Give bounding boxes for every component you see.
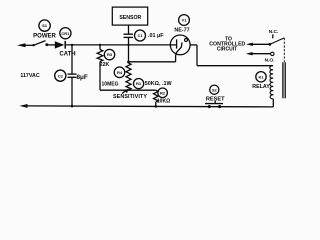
svg-text:SENSOR: SENSOR (119, 15, 141, 21)
svg-text:10KΩ: 10KΩ (157, 98, 170, 104)
svg-text:NE-77: NE-77 (174, 27, 189, 33)
svg-text:R2: R2 (160, 90, 166, 95)
svg-text:RESET: RESET (206, 96, 225, 102)
svg-text:22K: 22K (100, 62, 110, 68)
svg-text:.01 μF: .01 μF (148, 33, 164, 39)
svg-text:R1: R1 (136, 81, 142, 86)
svg-text:C1: C1 (137, 33, 143, 38)
svg-text:R4: R4 (117, 70, 123, 75)
svg-text:8μF: 8μF (77, 74, 88, 81)
svg-text:R3: R3 (107, 52, 113, 57)
svg-text:CIRCUIT: CIRCUIT (217, 47, 237, 53)
svg-text:S2: S2 (212, 87, 218, 92)
svg-text:SENSITIVITY: SENSITIVITY (113, 94, 147, 100)
svg-text:V1: V1 (182, 18, 188, 23)
svg-text:N.O.: N.O. (265, 58, 275, 64)
svg-text:50KΩ, .1W: 50KΩ, .1W (145, 81, 173, 87)
svg-text:RELAY: RELAY (252, 84, 270, 90)
svg-text:117VAC: 117VAC (20, 73, 40, 79)
svg-text:K1: K1 (258, 74, 264, 79)
svg-text:S1: S1 (42, 23, 48, 28)
svg-text:POWER: POWER (33, 33, 56, 39)
svg-text:N.C.: N.C. (269, 29, 279, 35)
svg-text:CATH: CATH (59, 52, 75, 58)
svg-text:CR1: CR1 (61, 31, 70, 36)
svg-text:10MEG: 10MEG (102, 81, 119, 87)
svg-text:C2: C2 (58, 73, 64, 78)
